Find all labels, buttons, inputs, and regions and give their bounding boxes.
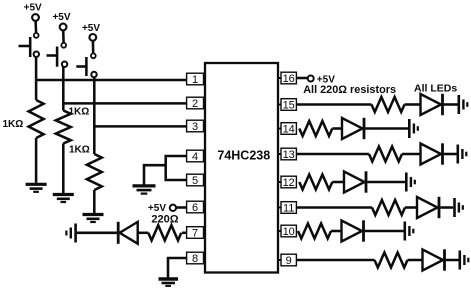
- wire LED D1 to ground: [444, 103, 458, 106]
- ground G11 (right-pointing): [455, 198, 463, 217]
- row pin 11: wire to resistor R9: [297, 206, 372, 209]
- ground G6 (left-pointing, pin 7 branch): [66, 224, 75, 243]
- resistor R9: [372, 200, 405, 215]
- pin 8 box: [187, 252, 204, 265]
- pin 3 box: [187, 120, 204, 133]
- wire R9 to LED D5: [405, 206, 417, 209]
- svg-text:8: 8: [192, 253, 198, 265]
- svg-text:15: 15: [283, 99, 295, 111]
- pin 5 box: [187, 174, 204, 187]
- pin 15 box: [281, 99, 296, 112]
- row pin 15: wire to resistor R5: [297, 103, 372, 106]
- wire bus node A (to pin 1): [35, 79, 187, 82]
- svg-text:+5V: +5V: [24, 2, 42, 13]
- switch S1 pushbutton: [19, 14, 40, 57]
- wire R2 to ground: [62, 144, 65, 194]
- ground G12 (right-pointing): [405, 222, 414, 241]
- +5V terminal at pin 16: [308, 76, 314, 82]
- IC U1 74HC238 body: [205, 63, 278, 273]
- resistor R2 1KOhm label: [69, 107, 90, 118]
- switch S3 +5V label: [82, 23, 100, 34]
- wire pin 16 to +5V terminal: [297, 77, 308, 80]
- wire tie to ground G4: [144, 165, 166, 184]
- switch S1 +5V label: [24, 2, 42, 13]
- LED D3: [421, 143, 443, 164]
- IC U1 label: [217, 148, 270, 162]
- svg-text:6: 6: [192, 202, 198, 214]
- pin 14 box: [281, 123, 296, 136]
- svg-text:10: 10: [283, 226, 295, 238]
- pin 6 box: [187, 201, 204, 214]
- svg-text:74HC238: 74HC238: [217, 148, 270, 162]
- IC pin stubs: [203, 78, 282, 260]
- wire pin 8 to ground: [168, 258, 187, 278]
- LED D6: [342, 220, 364, 241]
- pin 16 box: [281, 72, 296, 85]
- svg-text:14: 14: [283, 123, 295, 135]
- svg-text:1KΩ: 1KΩ: [69, 145, 90, 156]
- svg-text:1: 1: [192, 74, 198, 86]
- ground G7 (right-pointing): [459, 95, 468, 114]
- resistor R11: [375, 253, 408, 268]
- LED D4: [344, 171, 366, 192]
- row pin 9: wire to resistor R11: [297, 259, 375, 262]
- wire pins 4-5 tie: [166, 156, 187, 180]
- resistor R5: [372, 97, 405, 112]
- row pin 10: resistor R10: [298, 224, 331, 239]
- pin 11 box: [281, 202, 296, 215]
- ground G13 (right-pointing): [460, 251, 469, 270]
- svg-text:1KΩ: 1KΩ: [69, 107, 90, 118]
- pin 13 box: [281, 148, 296, 161]
- switch S3 pushbutton: [76, 34, 96, 77]
- wire R5 to LED D1: [405, 103, 421, 106]
- ground G5 (pin 8): [159, 279, 179, 286]
- wire ground to LED D0: [77, 232, 117, 235]
- row pin 14: resistor R6: [299, 121, 332, 136]
- svg-text:2: 2: [192, 98, 198, 110]
- pin 7 box: [187, 227, 204, 240]
- LED D1: [421, 94, 443, 115]
- wire bus node B (to pin 2): [62, 102, 187, 105]
- LED D5: [417, 197, 439, 218]
- wire LED D0 to resistor R4: [138, 232, 149, 235]
- svg-text:220Ω: 220Ω: [151, 214, 178, 226]
- wire S3 to bus3 and R3: [93, 78, 96, 155]
- svg-text:+5V: +5V: [82, 23, 100, 34]
- wire LED D5 to ground: [440, 206, 453, 209]
- resistor R3 zigzag: [87, 154, 102, 190]
- wire R7 to LED D3: [402, 153, 421, 156]
- wire R4 to pin 7: [182, 232, 187, 235]
- wire LED D7 to ground: [446, 259, 459, 262]
- wire LED D2 to ground: [365, 127, 408, 130]
- wire LED D4 to ground: [367, 181, 405, 184]
- pin 10 box: [281, 225, 296, 238]
- wire LED D6 to ground: [365, 230, 404, 233]
- pin 9 box: [281, 254, 296, 267]
- ground G9 (right-pointing): [458, 145, 467, 164]
- 220 Ohm label at pin 7: [151, 214, 178, 226]
- resistor R1 1KOhm label: [3, 119, 24, 130]
- wire R8 to LED D4: [332, 181, 344, 184]
- resistor R7: [369, 147, 402, 162]
- pin 2 box: [187, 97, 204, 110]
- row pin 13: wire to resistor R7: [297, 153, 369, 156]
- svg-text:13: 13: [283, 149, 295, 161]
- pin 1 box: [187, 73, 204, 86]
- wire R11 to LED D7: [408, 259, 423, 262]
- resistor R1 zigzag: [29, 100, 44, 138]
- ground G1: [26, 184, 47, 192]
- ground G10 (right-pointing): [406, 173, 415, 192]
- wire S1 to bus1 and R1: [35, 57, 38, 100]
- switch S2 +5V label: [52, 12, 70, 23]
- LED D2: [342, 118, 364, 139]
- wire bus node C (to pin 3): [93, 125, 187, 128]
- note: All LEDs: [414, 83, 457, 95]
- svg-text:11: 11: [283, 202, 294, 214]
- wire R10 to LED D6: [331, 230, 342, 233]
- row pin 12: resistor R8: [299, 175, 332, 190]
- ground G2: [53, 195, 74, 203]
- svg-text:3: 3: [192, 121, 198, 133]
- svg-text:12: 12: [283, 177, 295, 189]
- switch S2 pushbutton: [47, 24, 68, 67]
- LED D7: [423, 249, 445, 270]
- svg-text:All 220Ω resistors: All 220Ω resistors: [303, 84, 396, 96]
- wire R1 to ground: [35, 138, 38, 183]
- wire R3 to ground: [93, 190, 96, 213]
- svg-text:7: 7: [192, 227, 198, 239]
- +5V label at pin 6: [148, 203, 166, 214]
- resistor R2 zigzag: [56, 111, 71, 144]
- wire S2 to bus2 and R2: [62, 67, 65, 111]
- ground G3: [83, 215, 104, 223]
- svg-text:5: 5: [192, 175, 198, 187]
- wire LED D3 to ground: [444, 153, 457, 156]
- svg-text:+5V: +5V: [52, 12, 70, 23]
- pin 4 box: [187, 150, 204, 163]
- svg-text:+5V: +5V: [148, 203, 166, 214]
- pin 12 box: [281, 176, 296, 189]
- svg-text:16: 16: [283, 73, 295, 85]
- resistor R4 220 Ohm (pin 7): [148, 225, 181, 240]
- note: All 220 Ohm resistors: [303, 84, 396, 96]
- wire R6 to LED D2: [332, 127, 342, 130]
- +5V terminal at pin 6: [170, 205, 187, 211]
- ground G4: [133, 186, 156, 194]
- svg-text:4: 4: [192, 151, 198, 163]
- +5V label at pin 16: [317, 74, 335, 85]
- ground G8 (right-pointing): [409, 119, 418, 138]
- resistor R3 1KOhm label: [69, 145, 90, 156]
- svg-text:1KΩ: 1KΩ: [3, 119, 24, 130]
- svg-text:9: 9: [286, 255, 292, 267]
- LED D0 (pin 7, points left): [118, 222, 138, 244]
